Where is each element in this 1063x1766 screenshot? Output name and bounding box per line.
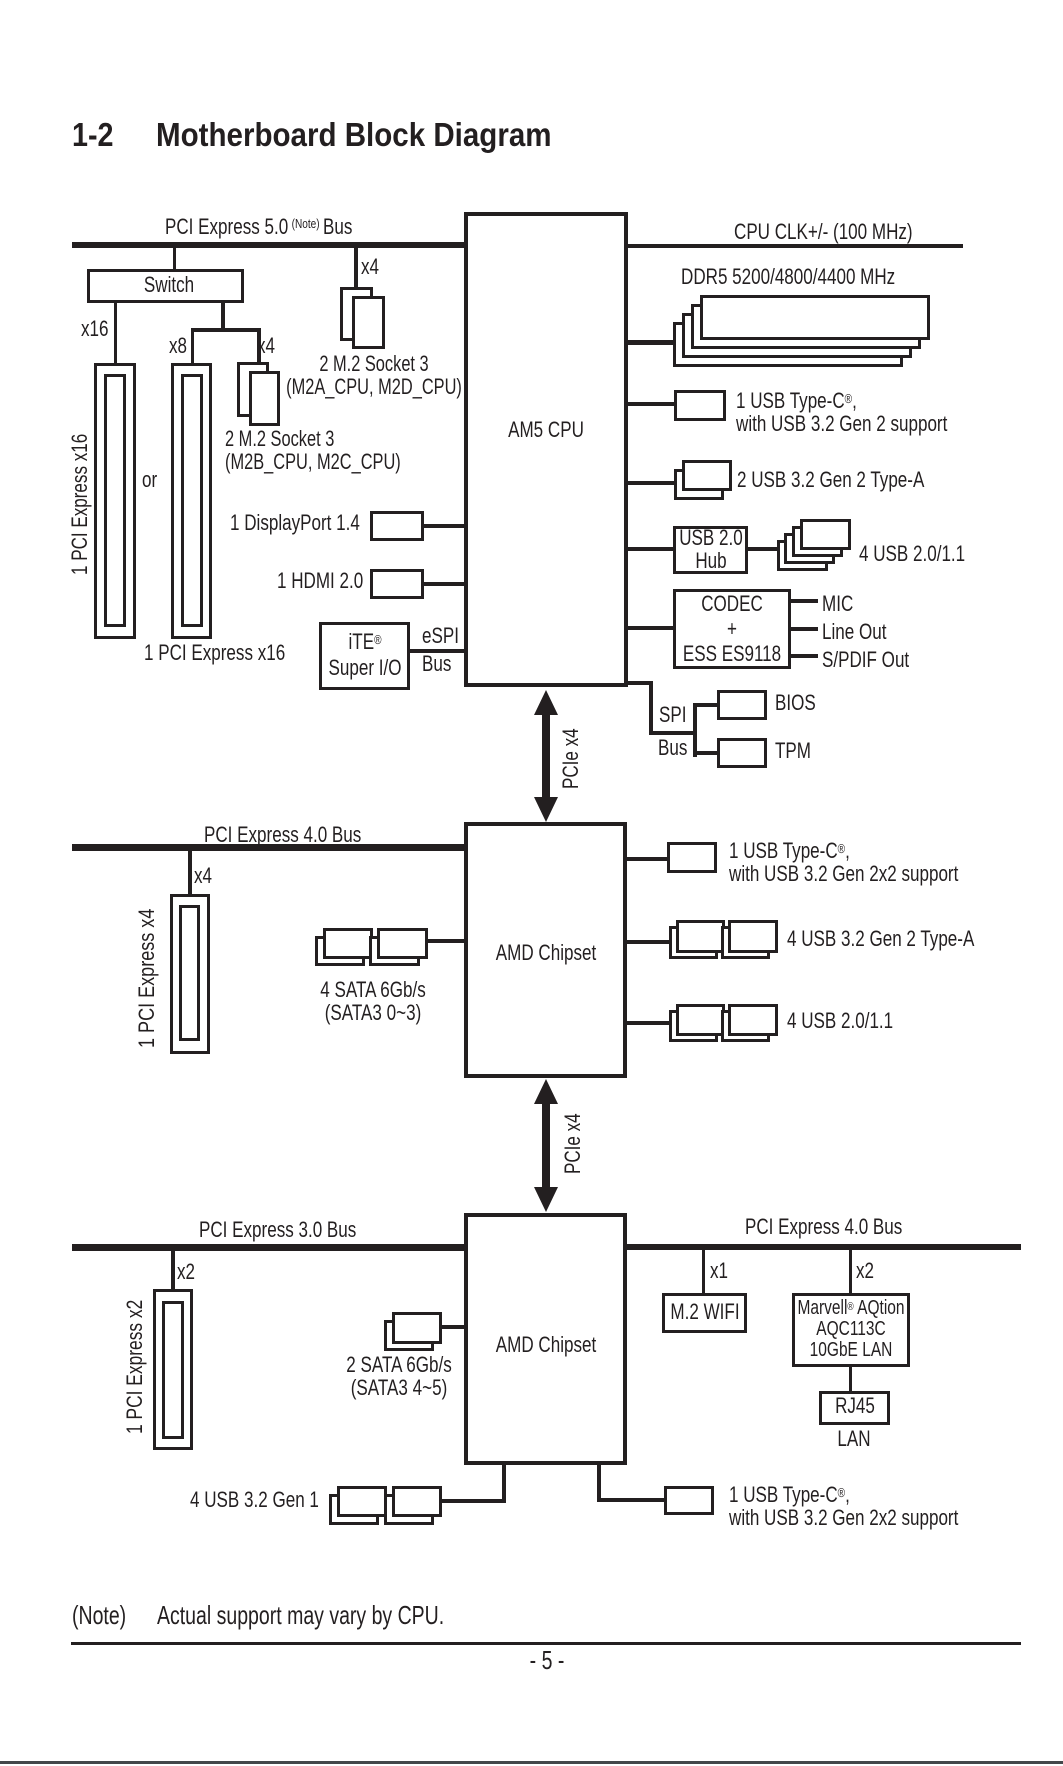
arrow PCIe x4 CPU-chipset [534,690,558,822]
CODEC box [673,589,791,669]
wire SATA to chipset 2 [442,1325,464,1329]
footer rule [71,1642,1021,1646]
USB gen1 front rect 2 [392,1486,442,1517]
arrow PCIe x4 chipset-chipset [534,1079,558,1212]
DIMM rect 3 [682,313,912,358]
wire x8 drop [191,330,195,363]
wire bus to Marvell LAN [849,1250,853,1293]
M.2 WIFI box [662,1293,748,1333]
vertical label 1 PCI Express x2 [124,1300,146,1434]
USB-A pair front rect [682,460,732,491]
label TPM [775,740,811,762]
M.2 socket mid back rect [237,362,269,417]
vertical label 1 PCI Express x4 [136,908,158,1047]
label PCI Express 4.0 Bus left [204,824,361,846]
SATA mid front rect 2 [377,928,428,959]
label 1 HDMI 2.0 [277,570,363,592]
USB gen2 front rect 1 [676,920,725,953]
DIMM rect 4 [673,322,903,367]
USB gen2 front rect 2 [728,920,778,953]
USB Type-C rect mid [667,842,717,874]
wire chipset1 to USB-C [627,857,667,861]
PCIe x2 slot inner [162,1301,185,1439]
label DDR5 [681,266,895,288]
SATA bottom front rect [392,1312,442,1344]
Marvell AQtion box [792,1293,910,1367]
wire CPU SPI exit [628,681,653,685]
label 4 USB 3.2 Gen 1 [190,1489,319,1511]
CPU box [464,212,628,687]
DisplayPort rect [370,511,424,541]
bus bar PCI Express 4.0 [72,844,464,851]
M.2 socket right back rect [340,287,373,341]
PCIe x16 slot 1 inner [104,374,126,627]
PCIe x2 slot outer [153,1289,193,1450]
label 2 M.2 Socket 3 (M2A/M2D) [286,352,462,398]
wire bus to Switch [173,248,177,271]
wire SATA to chipset 1 [428,939,464,943]
USB gen1 front rect 1 [337,1486,387,1517]
vertical label PCIe x4 upper [560,728,582,789]
wire bus to M.2 right [354,248,358,288]
label CPU CLK [734,221,913,243]
label PCI Express 4.0 Bus right [745,1216,902,1238]
switch box [87,269,244,303]
USB Type-C rect top [674,390,726,421]
wire bus to PCIe x4 slot [188,851,192,894]
wire HDMI to CPU [424,582,464,586]
label 4 USB 3.2 Gen 2 Type-A [787,928,974,950]
bus bar PCI Express 5.0 [72,242,465,248]
label PCI Express 3.0 Bus [199,1219,356,1241]
wire to USB gen1 stack [442,1499,504,1503]
USB 2.0 hub box [673,526,748,574]
wire x4 drop mid [257,330,261,362]
label Marvell AQtion [797,1297,904,1361]
label x1 [710,1260,728,1282]
chipset 1 box [464,822,628,1078]
label SPI [659,704,686,726]
label 4 SATA 6Gb/s [320,978,426,1024]
DIMM rect 2 [691,304,921,349]
SATA bottom back rect [384,1320,434,1352]
vertical label 1 PCI Express x16 [69,433,91,574]
label PCI Express 5.0 Bus [165,213,352,238]
wire DisplayPort to CPU [424,524,464,528]
label x8 [169,335,187,357]
wire CPU to USB-A pair [628,481,674,485]
label AMD Chipset 2 [495,1334,595,1356]
wire to USB-C bottom [597,1498,664,1502]
wire hub to USB stack [748,547,779,551]
label S/PDIF Out [822,649,909,671]
stub CODEC to Line Out [791,627,818,631]
stub CODEC to S/PDIF [791,654,818,658]
label Line Out [822,621,886,643]
USB 2.0 back rect 2 [721,1010,770,1043]
wire SPI horizontal [649,731,697,735]
label BIOS [775,692,816,714]
USB2 stack rect 4 [777,540,828,572]
label 1 USB Type-C bottom [729,1481,958,1529]
chipset 2 box [464,1213,628,1465]
SATA mid back rect 2 [369,936,420,967]
label Note [72,1602,126,1628]
label 2 USB 3.2 Gen 2 Type-A [737,469,924,491]
label or [142,469,157,491]
label 4 USB 2.0/1.1 top [859,543,965,565]
wire chipset2 down right [597,1465,601,1502]
label MIC [822,593,853,615]
label 1 PCI Express x16 horizontal [144,642,285,664]
USB gen2 back rect 2 [721,926,770,959]
label eSPI [422,625,459,647]
wire CPU to DIMM [628,340,675,345]
RJ45 box [819,1391,890,1425]
wire chipset1 to USB gen2 [627,940,669,944]
stub SPI to BIOS [693,703,718,707]
USB gen2 back rect 1 [669,926,718,959]
SATA mid front rect 1 [323,928,373,959]
label M.2 WIFI [670,1301,739,1323]
label note text [157,1602,444,1628]
USB 2.0 front rect 1 [676,1004,725,1037]
title section number [72,118,114,151]
PCIe x16 slot 2 outer [171,363,212,639]
label x16 [81,318,109,340]
wire iTE to CPU [410,649,464,653]
BIOS box [717,690,767,721]
USB gen1 back rect 1 [329,1494,379,1526]
label 2 SATA 6Gb/s [346,1353,452,1399]
wire Marvell to RJ45 [849,1367,853,1392]
label USB 2.0 Hub [679,526,743,572]
wire bus to PCIe x2 slot [171,1251,175,1290]
label 1 USB Type-C top [736,387,947,435]
M.2 socket mid front rect [249,371,280,426]
title text [156,118,552,151]
bus bar PCI Express 3.0 [72,1244,464,1251]
vertical label PCIe x4 lower [562,1113,584,1174]
USB 2.0 back rect 1 [669,1010,718,1043]
label AM5 CPU [508,419,584,441]
stub SPI to TPM [693,751,718,755]
label iTE Super I/O [328,627,401,681]
PCIe x16 slot 2 inner [181,374,203,627]
USB2 stack rect 3 [784,533,835,565]
wire CPU to CODEC [628,626,673,630]
USB2 stack rect 2 [792,526,843,558]
SATA mid back rect 1 [315,936,365,967]
HDMI rect [370,569,424,599]
USB-A pair back rect [674,469,724,500]
CPU CLK line [628,244,963,248]
label RJ45 [835,1395,875,1417]
label x4 right [361,256,379,278]
wire CPU to USB-C top [628,402,674,406]
USB 2.0 front rect 2 [728,1004,778,1037]
label 1 USB Type-C mid [729,837,958,885]
page bottom edge line [0,1761,1063,1764]
wire CPU to USB hub [628,547,673,551]
wire Switch to x8/x4 junction [221,302,225,332]
iTE Super I/O box [319,622,410,690]
label CODEC ESS [683,591,781,666]
DIMM rect 1 [700,295,930,340]
wire chipset2 down left [502,1465,506,1503]
label 1 DisplayPort 1.4 [230,512,360,534]
PCIe x4 slot inner [179,905,200,1041]
M.2 socket right front rect [352,296,385,349]
wire bus to M.2 WIFI [702,1250,706,1293]
wire SPI vertical 1 [649,681,653,735]
PCIe x16 slot 1 outer [94,363,136,639]
label 4 USB 2.0/1.1 mid [787,1010,893,1032]
TPM box [717,738,767,769]
label Switch [144,274,194,296]
USB Type-C rect bottom [664,1486,714,1516]
label x2 right [856,1260,874,1282]
stub CODEC to MIC [791,599,818,603]
label x2 slot [177,1261,195,1283]
label 2 M.2 Socket 3 (M2B/M2C) [225,427,401,473]
label x4 mid [257,335,275,357]
label Bus [658,737,687,759]
junction bar [191,328,261,332]
label page number [529,1647,564,1673]
label x4 slot [194,865,212,887]
bus bar PCI Express 4.0 right [627,1244,1021,1251]
wire Switch to PCIe x16 slot [114,302,118,363]
label eSPI Bus [422,653,451,675]
wire SPI branch vertical [693,703,697,757]
USB gen1 back rect 2 [384,1494,434,1526]
label LAN [837,1428,870,1450]
wire chipset1 to USB 2.0 [627,1021,669,1025]
USB2 stack rect 1 [800,519,851,551]
label AMD Chipset 1 [495,942,595,964]
PCIe x4 slot outer [170,894,210,1054]
